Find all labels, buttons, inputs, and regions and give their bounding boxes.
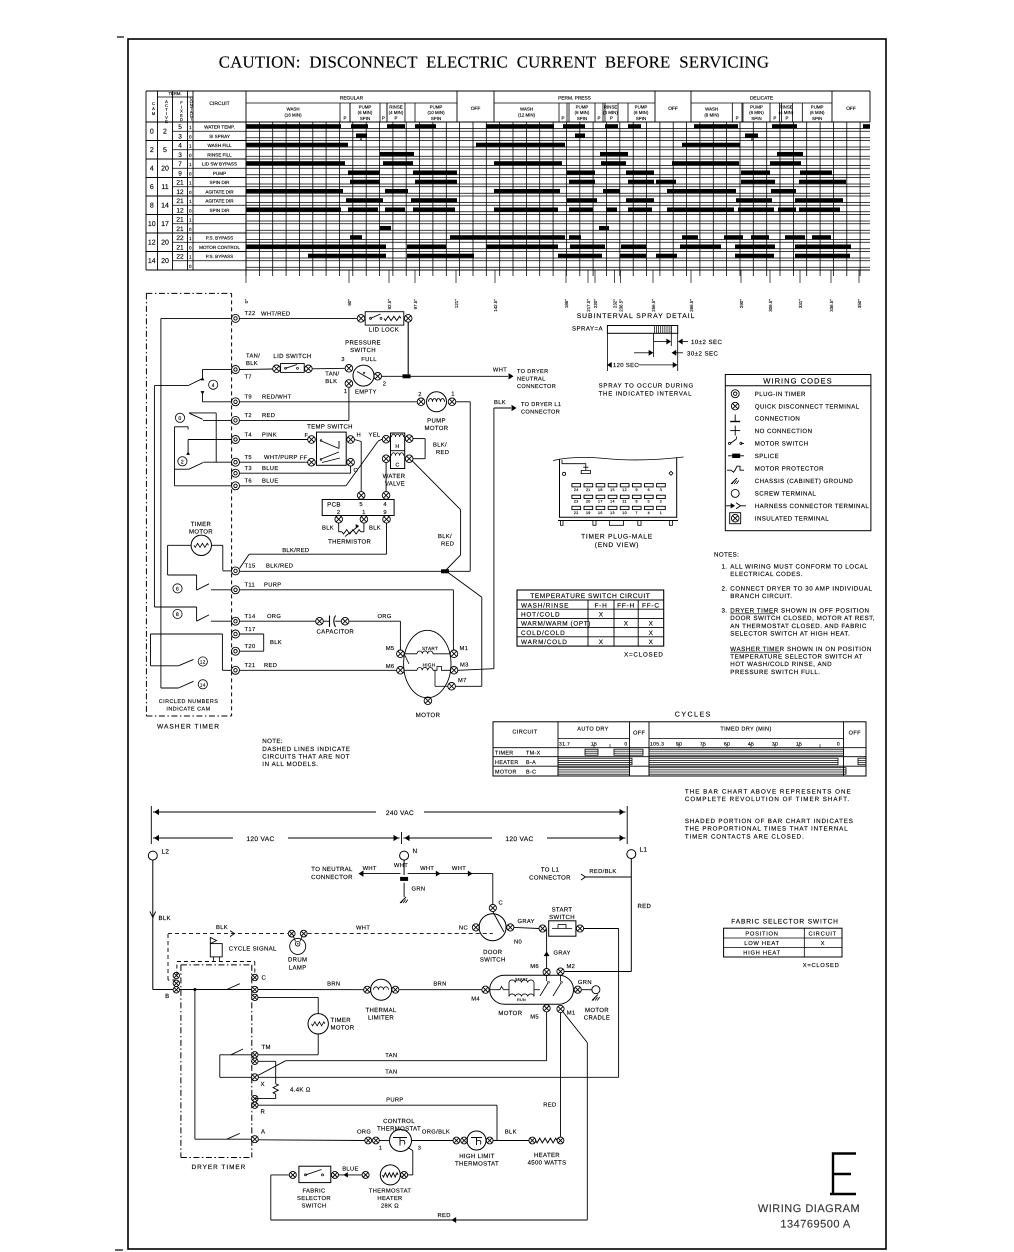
svg-text:C: C [499,900,504,907]
svg-text:PUMP: PUMP [635,105,648,110]
svg-text:MOTOR SWITCH: MOTOR SWITCH [755,441,809,448]
svg-text:4: 4 [648,511,650,515]
svg-text:2: 2 [660,500,662,504]
svg-text:24: 24 [574,488,579,492]
svg-text:TAN/: TAN/ [246,353,260,360]
svg-text:0: 0 [189,264,192,269]
svg-text:MOTOR: MOTOR [495,769,517,775]
svg-text:SPRAY TO OCCUR DURING: SPRAY TO OCCUR DURING [599,383,694,390]
terminal T9 (plug-in timer) [232,398,240,406]
svg-text:3: 3 [418,1146,421,1152]
svg-text:CHASSIS (CABINET) GROUND: CHASSIS (CABINET) GROUND [755,478,854,485]
svg-text:WASHER TIMER: WASHER TIMER [157,724,220,731]
svg-text:TIMER PLUG-MALE: TIMER PLUG-MALE [581,534,653,541]
wire T22 to lid lock [240,317,358,319]
svg-text:21: 21 [176,226,184,233]
svg-text:12: 12 [176,189,184,196]
svg-text:T20: T20 [245,643,256,650]
svg-text:2: 2 [383,380,387,387]
svg-text:SPIN: SPIN [360,116,370,121]
svg-text:THERMOSTAT: THERMOSTAT [369,1188,412,1195]
svg-text:M6: M6 [386,663,395,670]
wire TAN upper to M5 [286,1060,547,1062]
svg-text:C: C [262,975,267,982]
terminal L1 [627,850,636,859]
svg-text:TAN: TAN [385,1070,397,1076]
svg-text:1: 1 [189,125,192,130]
svg-text:220°: 220° [593,299,598,308]
svg-text:92.5°: 92.5° [387,299,392,310]
door switch [479,914,506,941]
svg-text:10±2 SEC: 10±2 SEC [691,339,722,346]
svg-text:M4: M4 [471,997,480,1003]
svg-text:WATER TEMP.: WATER TEMP. [204,125,235,130]
dryer motor internals [489,989,497,991]
svg-text:5: 5 [359,502,363,508]
svg-text:MOTOR: MOTOR [189,529,213,536]
svg-text:TIMED DRY (MIN): TIMED DRY (MIN) [720,726,771,733]
svg-text:12: 12 [176,207,184,214]
cam contact 4 [154,385,188,387]
svg-text:BLK: BLK [216,925,228,931]
svg-text:23: 23 [574,500,579,504]
svg-text:18: 18 [598,488,603,492]
svg-text:120 VAC: 120 VAC [246,836,274,843]
svg-text:(4 MIN): (4 MIN) [389,110,404,115]
cam contact 8 [154,606,196,608]
thermistor [338,523,340,532]
svg-text:15: 15 [610,488,615,492]
svg-text:SCREW TERMINAL: SCREW TERMINAL [755,491,817,498]
svg-text:X: X [649,639,654,646]
svg-text:5: 5 [163,147,167,154]
svg-text:ORG: ORG [377,613,391,620]
svg-text:INDICATE CAM: INDICATE CAM [166,707,210,713]
svg-text:0: 0 [189,245,192,250]
wire M6 GRAY up to start switch [546,929,548,969]
wire splice diagonal to M7 [448,573,482,598]
svg-text:CONNECTOR: CONNECTOR [529,875,571,882]
svg-text:BLK: BLK [246,361,258,367]
svg-text:GRAY: GRAY [554,950,571,957]
svg-text:NO CONNECTION: NO CONNECTION [755,428,813,435]
svg-text:BLK/: BLK/ [438,533,452,540]
wire T2 to pressure switch 1 [240,419,349,421]
svg-text:TERM.: TERM. [168,91,181,96]
washer motor [404,630,451,697]
svg-text:P: P [344,116,347,121]
svg-text:TEMPERATURE SWITCH CIRCUIT: TEMPERATURE SWITCH CIRCUIT [530,593,650,600]
svg-text:BLUE: BLUE [262,466,279,472]
svg-text:CAUTION: DISCONNECT ELECTRIC: CAUTION: DISCONNECT ELECTRIC CURRENT BEF… [219,53,769,72]
svg-text:WHT/RED: WHT/RED [261,310,291,317]
wire T7 to lid switch [240,368,273,371]
svg-text:SPIN: SPIN [577,116,587,121]
svg-text:0: 0 [624,741,627,747]
svg-text:BLK: BLK [159,915,171,922]
svg-text:SWITCH: SWITCH [480,957,506,964]
wire T11 PURP to M1 [240,589,454,591]
svg-text:331°: 331° [798,299,803,308]
svg-text:BLK: BLK [325,379,337,385]
svg-text:22: 22 [176,254,184,261]
svg-text:9: 9 [636,488,638,492]
wire T3 to temp switch C [240,472,351,474]
timer plug bottom strip and feet [558,520,678,522]
splice neutral [400,877,408,881]
svg-text:TO DRYER: TO DRYER [517,369,549,375]
svg-text:DASHED LINES INDICATE: DASHED LINES INDICATE [262,746,350,753]
svg-text:PUMP: PUMP [430,105,443,110]
svg-text:MOTOR: MOTOR [425,425,449,432]
legend no connection [734,426,736,436]
svg-text:PURP: PURP [264,583,282,589]
svg-text:NC: NC [459,925,468,932]
terminal T7 (plug-in timer) [232,366,240,374]
svg-text:TIMER: TIMER [495,750,514,756]
svg-text:X: X [624,621,629,628]
svg-text:(8 MIN): (8 MIN) [704,113,719,118]
svg-text:M2: M2 [567,963,576,970]
svg-text:RUN: RUN [517,998,526,1002]
svg-text:1: 1 [189,181,192,186]
svg-text:0: 0 [150,129,154,136]
washer motor high winding [404,669,417,671]
svg-text:6: 6 [648,488,650,492]
svg-text:PUMP: PUMP [427,417,446,424]
svg-text:21: 21 [176,180,184,187]
svg-text:336.5°: 336.5° [829,299,834,312]
svg-text:(6 MIN): (6 MIN) [358,110,373,115]
svg-text:(4 MIN): (4 MIN) [603,110,618,115]
svg-text:THE INDICATED INTERVAL: THE INDICATED INTERVAL [599,390,693,397]
wiring codes legend box [725,375,871,531]
svg-text:BLUE: BLUE [262,479,279,485]
svg-text:H: H [357,433,362,439]
svg-text:PLUG-IN TIMER: PLUG-IN TIMER [755,391,806,398]
legend chassis ground [731,478,737,484]
svg-text:20: 20 [161,240,169,247]
svg-text:M1: M1 [567,1011,576,1017]
timer plug-male body [553,457,684,461]
svg-text:SPLICE: SPLICE [755,453,779,460]
svg-text:FF-H: FF-H [617,602,635,609]
svg-text:306.5°: 306.5° [768,299,773,312]
svg-text:MOTOR: MOTOR [498,1010,522,1017]
cam contact 6 [168,574,197,576]
wire L1 down to M2 [630,859,632,972]
spray bar [607,326,677,334]
svg-text:RINSE: RINSE [389,105,402,110]
svg-text:DOOR SWITCH CLOSED, MOTOR AT R: DOOR SWITCH CLOSED, MOTOR AT REST, [730,615,875,622]
svg-text:1: 1 [344,389,348,395]
wire timer motor right to T15 [212,544,223,546]
pressure switch [353,365,374,386]
svg-text:P: P [562,116,565,121]
svg-text:C: C [395,462,399,468]
svg-text:M6: M6 [530,963,539,970]
svg-text:INSULATED TERMINAL: INSULATED TERMINAL [755,515,829,522]
svg-text:P: P [395,116,398,121]
svg-text:1: 1 [189,144,192,149]
cycles timer bars [585,749,598,755]
svg-text:NOTE:: NOTE: [262,738,283,745]
svg-text:RED: RED [436,450,449,456]
svg-text:3: 3 [660,488,662,492]
border frame [128,39,886,1249]
svg-text:30±2 SEC: 30±2 SEC [687,351,718,358]
svg-text:1: 1 [189,236,192,241]
svg-text:H: H [395,444,399,450]
svg-text:350°: 350° [857,299,862,308]
svg-text:AN THERMOSTAT CLOSED. AND FABR: AN THERMOSTAT CLOSED. AND FABRIC [730,623,867,630]
svg-text:WHT: WHT [394,863,408,869]
svg-text:13: 13 [610,511,615,515]
motor cradle [581,989,592,991]
svg-text:WHT: WHT [420,866,434,872]
svg-text:120 VAC: 120 VAC [505,836,533,843]
svg-text:14: 14 [200,683,206,688]
svg-text:HOT WASH/COLD RINSE, AND: HOT WASH/COLD RINSE, AND [730,661,832,668]
water valve [391,433,405,469]
drum lamp [288,930,295,937]
svg-text:2: 2 [337,509,341,516]
svg-text:GRAY: GRAY [517,918,534,925]
svg-text:MOTOR: MOTOR [585,1007,609,1014]
wire water valve C to PCB 4 [385,463,387,492]
svg-text:TIMER CONTACTS ARE CLOSED.: TIMER CONTACTS ARE CLOSED. [685,833,805,840]
svg-text:WHT: WHT [452,866,466,872]
svg-text:VALVE: VALVE [385,480,405,487]
wire T4 interior [188,439,231,441]
svg-text:PUMP: PUMP [359,105,372,110]
svg-text:RED: RED [638,903,652,910]
svg-text:SWITCH: SWITCH [350,347,376,354]
cam 12 circle [198,657,207,666]
svg-text:OFF: OFF [849,731,861,737]
svg-text:10: 10 [622,511,627,515]
svg-text:TAN: TAN [385,1053,397,1059]
thermostat heater 28K [362,1171,369,1178]
svg-text:CRADLE: CRADLE [584,1015,610,1022]
svg-text:PRESSURE SWITCH FULL.: PRESSURE SWITCH FULL. [730,669,820,676]
svg-text:BLK/RED: BLK/RED [266,563,293,570]
svg-text:21: 21 [176,198,184,205]
svg-text:B: B [165,993,169,1000]
svg-text:8: 8 [636,500,638,504]
svg-text:LIMITER: LIMITER [368,1015,394,1022]
svg-text:X: X [261,1081,265,1088]
terminal B stack [173,972,179,978]
svg-text:ORG: ORG [357,1129,371,1136]
svg-text:X: X [599,639,604,646]
legend plug-in timer [731,390,739,398]
svg-text:LID SWITCH: LID SWITCH [273,353,311,360]
svg-text:5: 5 [178,124,182,131]
cam contact 2 stub [175,426,189,428]
svg-text:7: 7 [178,161,182,168]
svg-text:3.: 3. [722,607,728,614]
svg-text:BLK/RED: BLK/RED [282,547,309,554]
svg-text:LAMP: LAMP [289,965,307,972]
wire T9 to pump motor [240,401,418,403]
svg-text:BLK/: BLK/ [433,441,447,448]
svg-text:(END VIEW): (END VIEW) [595,542,640,549]
svg-text:T7: T7 [245,375,252,381]
svg-text:D: D [180,117,183,122]
svg-text:2: 2 [418,391,422,398]
svg-text:HIGH: HIGH [423,663,436,668]
terminal T3 (plug-in timer) [232,469,240,477]
svg-text:142.5°: 142.5° [493,299,498,312]
svg-text:(12 MIN): (12 MIN) [518,113,536,118]
svg-text:X: X [649,630,654,637]
terminal L2 [148,851,157,860]
svg-text:RED: RED [262,413,275,419]
svg-text:M5: M5 [386,646,395,652]
cam 14 circle [198,680,207,689]
wire T15 BLK/RED to motor [240,570,471,572]
svg-text:T2: T2 [245,412,252,419]
svg-text:16: 16 [598,511,603,515]
svg-text:PUMP: PUMP [213,171,226,176]
svg-text:IN ALL MODELS.: IN ALL MODELS. [262,761,318,768]
wire M5 down to TAN [546,1012,548,1061]
cam 0 circle [175,413,184,422]
washer motor M7 link [434,670,436,686]
svg-text:R: R [261,1109,266,1116]
svg-text:(4 MIN): (4 MIN) [779,110,794,115]
svg-text:28K Ω: 28K Ω [381,1203,399,1210]
svg-text:121°: 121° [454,299,459,308]
wire T15 BLK/RED to PCB 9 [240,554,250,568]
svg-text:WHT/PURP: WHT/PURP [264,454,298,461]
svg-text:X=CLOSED: X=CLOSED [803,962,840,969]
svg-text:9: 9 [383,509,387,516]
svg-text:P: P [786,116,789,121]
svg-text:4: 4 [212,383,215,389]
svg-text:WASH: WASH [705,107,718,112]
timer plug mounting holes [563,472,566,475]
svg-text:P: P [773,116,776,121]
svg-text:HIGH LIMIT: HIGH LIMIT [459,1153,495,1160]
wire T21 RED to M6 [240,669,397,671]
svg-text:CONNECTOR: CONNECTOR [521,410,560,416]
svg-text:60°: 60° [347,299,352,306]
svg-text:FF: FF [300,456,308,462]
wire T6 interior [175,485,232,487]
svg-text:T9: T9 [245,394,252,401]
svg-text:LOW HEAT: LOW HEAT [744,940,779,947]
svg-text:X: X [649,621,654,628]
svg-text:240 VAC: 240 VAC [386,810,414,817]
svg-text:1: 1 [362,510,366,516]
svg-text:(6 MIN): (6 MIN) [634,110,649,115]
lid switch [273,365,281,373]
svg-text:4: 4 [178,143,182,150]
svg-text:L2: L2 [162,849,170,856]
wire capacitor to M5 [349,620,401,622]
wire WHT right to door switch [408,873,493,875]
svg-text:20: 20 [586,500,591,504]
svg-text:LID LOCK: LID LOCK [369,327,399,334]
svg-text:PUMP: PUMP [576,105,589,110]
svg-text:RED: RED [543,1103,556,1109]
legend quick disconnect terminal [731,402,739,410]
svg-text:WHT: WHT [493,367,507,373]
svg-text:T3: T3 [245,465,252,472]
svg-text:T22: T22 [245,310,256,317]
svg-text:TM: TM [262,1044,271,1051]
lid lock [357,315,365,323]
svg-text:L1: L1 [640,847,648,854]
svg-text:SI SPRAY: SI SPRAY [209,134,230,139]
svg-text:N: N [413,848,418,855]
svg-text:1: 1 [451,392,455,398]
svg-text:BLK: BLK [494,400,506,406]
svg-text:217.5°: 217.5° [586,299,591,312]
terminal X [251,1074,258,1081]
svg-text:10: 10 [148,221,156,228]
svg-text:(6 MIN): (6 MIN) [575,110,590,115]
svg-text:SELECTOR: SELECTOR [297,1195,331,1202]
svg-text:WHT: WHT [363,866,377,872]
svg-text:T11: T11 [245,583,256,589]
terminal T15 (plug-in timer) [232,567,240,575]
svg-text:1.: 1. [722,564,728,571]
svg-text:AGITATE DIR: AGITATE DIR [205,189,234,194]
svg-text:266.5°: 266.5° [689,299,694,312]
svg-text:M1: M1 [460,646,469,652]
svg-text:RED/WHT: RED/WHT [262,394,292,401]
svg-text:A: A [751,138,754,142]
svg-text:T4: T4 [245,432,253,438]
terminal C stack [252,974,258,980]
svg-text:0: 0 [189,227,192,232]
svg-text:8: 8 [176,612,179,618]
svg-text:PURP: PURP [386,1098,404,1104]
svg-text:ORG: ORG [267,613,281,620]
svg-text:B-C: B-C [526,769,536,775]
svg-text:WASH: WASH [286,107,299,112]
svg-text:OFF: OFF [633,731,645,737]
dryer timer contact B-C [180,989,252,991]
svg-text:PRESSURE: PRESSURE [345,339,381,346]
legend insulated terminal [730,513,741,524]
svg-text:WHT: WHT [356,926,370,932]
terminal T11 (plug-in timer) [232,586,240,594]
svg-text:THERMOSTAT: THERMOSTAT [377,1125,421,1132]
svg-text:B-A: B-A [526,760,536,766]
svg-text:T15: T15 [245,564,256,570]
legend splice [728,455,744,457]
svg-text:SPIN: SPIN [751,116,761,121]
resistor 4.4K [273,1084,278,1094]
PCB [322,500,394,516]
svg-text:21: 21 [176,217,184,224]
svg-text:T6: T6 [245,478,252,485]
wire pressure switch to neutral [382,375,403,377]
svg-text:THE PROPORTIONAL TIMES THAT IN: THE PROPORTIONAL TIMES THAT INTERNAL [685,826,849,833]
terminal T20 (plug-in timer) [232,647,240,655]
svg-text:CYCLE SIGNAL: CYCLE SIGNAL [229,946,277,953]
wire BLUE [338,1174,362,1176]
wire BRN to M4 [399,989,482,991]
120 VAC dimensions [401,832,403,844]
svg-text:HEATER: HEATER [377,1196,402,1202]
wire thermostat heater to control thermostat [408,1174,413,1176]
svg-text:CIRCUIT: CIRCUIT [209,101,229,107]
